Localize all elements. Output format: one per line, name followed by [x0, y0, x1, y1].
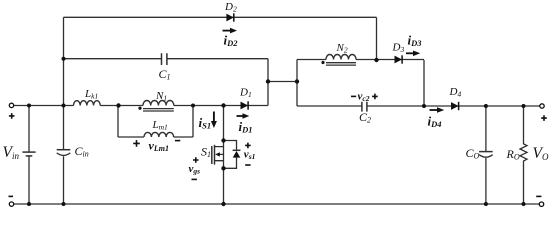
- svg-text:D3: D3: [392, 42, 405, 55]
- svg-text:RO: RO: [506, 147, 520, 162]
- svg-text:VO: VO: [533, 145, 549, 162]
- svg-text:D4: D4: [449, 86, 462, 99]
- svg-text:vgs: vgs: [189, 163, 201, 176]
- svg-text:iS1: iS1: [199, 115, 212, 131]
- svg-text:iD4: iD4: [428, 114, 442, 130]
- svg-text:Cin: Cin: [75, 144, 89, 159]
- svg-text:S1: S1: [201, 145, 211, 160]
- svg-text:Lk1: Lk1: [84, 88, 98, 101]
- svg-text:Vin: Vin: [3, 144, 20, 161]
- svg-text:iD2: iD2: [224, 33, 239, 49]
- svg-text:C2: C2: [359, 110, 371, 125]
- svg-text:N1: N1: [155, 90, 167, 103]
- svg-text:D1: D1: [239, 86, 252, 99]
- svg-text:iD1: iD1: [239, 119, 253, 135]
- svg-text:vc2: vc2: [358, 91, 370, 104]
- svg-text:vs1: vs1: [244, 148, 256, 161]
- svg-text:D2: D2: [224, 1, 237, 14]
- svg-text:Lm1: Lm1: [152, 119, 168, 132]
- svg-text:vLm1: vLm1: [149, 139, 169, 154]
- svg-text:C1: C1: [159, 67, 171, 82]
- svg-text:N2: N2: [336, 42, 348, 55]
- svg-text:CO: CO: [466, 146, 480, 161]
- svg-text:iD3: iD3: [408, 33, 423, 49]
